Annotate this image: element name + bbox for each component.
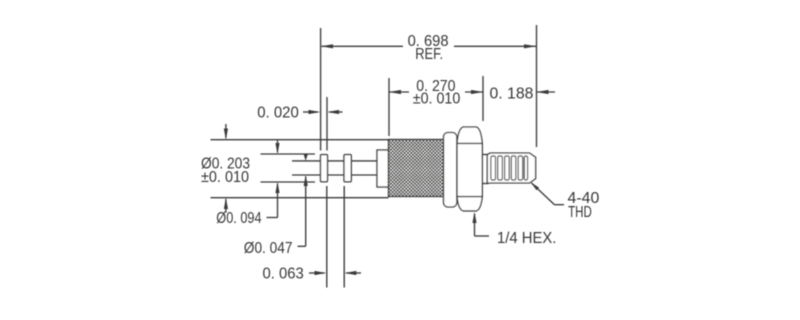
svg-text:±0. 010: ±0. 010: [413, 91, 461, 108]
svg-text:±0. 010: ±0. 010: [201, 169, 249, 186]
svg-text:0. 020: 0. 020: [257, 105, 299, 122]
svg-text:Ø0. 094: Ø0. 094: [216, 210, 262, 227]
svg-text:THD: THD: [568, 204, 592, 221]
svg-text:REF.: REF.: [415, 46, 443, 63]
svg-text:0. 188: 0. 188: [490, 86, 534, 103]
svg-text:Ø0. 047: Ø0. 047: [244, 240, 293, 257]
svg-text:1/4 HEX.: 1/4 HEX.: [497, 230, 556, 247]
svg-text:0. 063: 0. 063: [263, 266, 304, 283]
